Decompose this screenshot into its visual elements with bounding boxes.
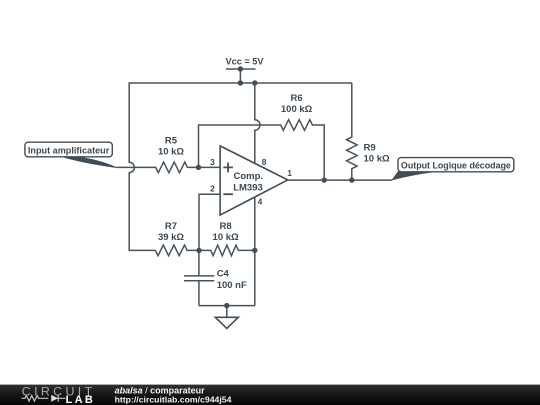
svg-text:8: 8 bbox=[262, 157, 267, 167]
svg-text:1: 1 bbox=[287, 168, 292, 178]
svg-text:C4: C4 bbox=[217, 268, 230, 279]
svg-text:R8: R8 bbox=[220, 221, 232, 232]
svg-text:Input amplificateur: Input amplificateur bbox=[28, 145, 110, 155]
svg-text:10 kΩ: 10 kΩ bbox=[213, 232, 239, 243]
svg-text:Output Logique décodage: Output Logique décodage bbox=[401, 160, 511, 170]
svg-text:R5: R5 bbox=[165, 136, 178, 147]
svg-text:Comp.: Comp. bbox=[234, 171, 264, 182]
svg-text:LM393: LM393 bbox=[233, 182, 263, 193]
svg-text:4: 4 bbox=[258, 197, 263, 207]
svg-text:10 kΩ: 10 kΩ bbox=[158, 147, 184, 158]
svg-text:LAB: LAB bbox=[66, 394, 96, 405]
svg-text:R9: R9 bbox=[364, 143, 376, 154]
svg-text:2: 2 bbox=[210, 184, 215, 194]
svg-text:39 kΩ: 39 kΩ bbox=[158, 232, 184, 243]
svg-text:10 kΩ: 10 kΩ bbox=[364, 154, 390, 165]
svg-text:R7: R7 bbox=[165, 221, 177, 232]
svg-text:100 kΩ: 100 kΩ bbox=[281, 104, 313, 115]
svg-text:http://circuitlab.com/c944j54: http://circuitlab.com/c944j54 bbox=[115, 394, 232, 404]
svg-text:Vcc = 5V: Vcc = 5V bbox=[225, 57, 264, 67]
svg-text:100 nF: 100 nF bbox=[217, 280, 247, 291]
svg-text:R6: R6 bbox=[291, 93, 303, 104]
svg-text:3: 3 bbox=[210, 157, 215, 167]
